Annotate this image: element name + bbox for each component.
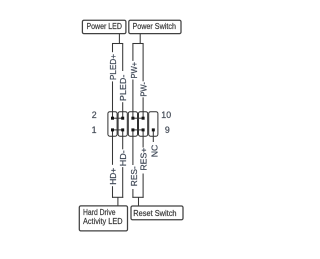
svg-text:2: 2 — [92, 110, 97, 120]
svg-text:HD+: HD+ — [108, 168, 118, 185]
svg-text:Activity LED: Activity LED — [83, 217, 123, 226]
svg-text:HD-: HD- — [118, 150, 128, 166]
svg-text:RES+: RES+ — [138, 148, 148, 171]
svg-text:1: 1 — [92, 125, 97, 135]
svg-text:NC: NC — [149, 145, 159, 158]
svg-text:9: 9 — [165, 125, 170, 135]
svg-text:PW+: PW+ — [129, 62, 139, 79]
svg-text:Power Switch: Power Switch — [132, 22, 176, 31]
svg-text:PLED-: PLED- — [118, 74, 128, 101]
svg-text:PLED+: PLED+ — [108, 54, 118, 80]
svg-text:10: 10 — [161, 110, 171, 120]
svg-text:Power LED: Power LED — [86, 22, 122, 31]
svg-text:Reset Switch: Reset Switch — [133, 209, 176, 218]
svg-text:RES-: RES- — [129, 166, 139, 186]
svg-text:PW-: PW- — [138, 82, 148, 97]
svg-text:Hard Drive: Hard Drive — [83, 208, 116, 217]
